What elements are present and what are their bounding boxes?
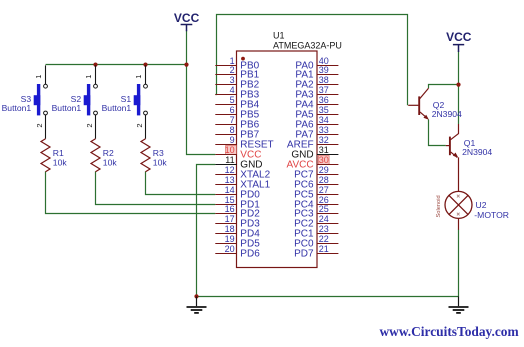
svg-text:19: 19 [225,234,235,244]
U1 pin 38 PA2 [295,75,338,91]
svg-text:2: 2 [35,123,44,127]
pushbutton S3 (Button1) [34,65,48,138]
wire: VCC right vertical down to Q1 collector [458,52,460,125]
resistor R2 10k [91,139,100,172]
svg-text:10: 10 [225,145,235,155]
wire: Q1 emitter to motor (component leads) [458,157,460,229]
svg-text:16: 16 [225,204,235,214]
svg-text:3: 3 [230,75,235,85]
svg-text:PD6: PD6 [240,249,260,260]
svg-text:38: 38 [319,75,329,85]
pushbutton S1 (Button1) [134,65,148,138]
svg-text:R3: R3 [153,148,164,158]
U1 pin 25 PC3 [294,204,338,220]
svg-text:35: 35 [319,105,329,115]
U1 pin 27 PC5 [294,185,338,201]
svg-text:33: 33 [319,125,329,135]
svg-text:2: 2 [230,65,235,75]
U1 pin 1 PB0 [215,56,259,72]
svg-text:U1: U1 [273,31,285,41]
U1 pin 32 AREF [287,135,338,151]
U1 pin 15 PD1 [215,195,260,211]
wire: R2 bottom to pin 15 PD1 [96,172,216,205]
U1 pin 11 GND [215,155,262,171]
wire: bottom ground rail [197,296,459,298]
svg-text:24: 24 [319,214,329,224]
svg-text:VCC: VCC [446,30,472,44]
motor U2 symbol [445,191,472,218]
U1 pin 7 PB6 [215,115,259,131]
svg-text:10k: 10k [153,158,168,168]
svg-text:10k: 10k [103,158,118,168]
U1 pin 5 PB4 [215,95,259,111]
U1 pin 29 PC7 [294,165,338,181]
wire: pin 11 GND left and down to ground [197,165,216,297]
svg-text:1: 1 [34,75,43,79]
svg-text:Solenoid: Solenoid [436,195,442,217]
op IC U1 ATMEGA32A-PU body [237,51,318,268]
svg-text:8: 8 [230,125,235,135]
wire: VCC left vertical down to pin 10 (VCC) [187,31,216,155]
U1 pin 10 VCC [215,145,261,161]
U1 pin 22 PC0 [294,234,338,250]
U1 pin 23 PC1 [294,224,338,240]
svg-text:Button1: Button1 [52,103,82,113]
motor pin marks [457,195,460,216]
svg-text:U2: U2 [476,200,487,210]
svg-text:13: 13 [225,175,235,185]
svg-text:14: 14 [225,185,235,195]
power symbol VCC (left) [174,11,200,31]
svg-text:-MOTOR: -MOTOR [474,210,509,220]
U1 pin 17 PD3 [215,214,260,230]
svg-text:2: 2 [85,123,94,127]
svg-text:2N3904: 2N3904 [462,147,492,157]
svg-text:Button1: Button1 [102,103,132,113]
junction: GND wire to ground rail [194,294,198,298]
U1 pin 37 PA3 [295,85,338,101]
pin 1 marker dot [241,57,245,61]
svg-text:2: 2 [135,123,144,127]
U1 pin 34 PA6 [295,115,338,131]
svg-text:28: 28 [319,175,329,185]
U1 pin 4 PB3 [215,85,259,101]
svg-text:11: 11 [225,155,234,165]
junction: VCC to Q2 collector [456,83,460,87]
resistor R3 10k [141,139,150,172]
wire: motor bottom to ground rail [458,230,460,297]
svg-text:29: 29 [319,165,329,175]
wire: R3 bottom to pin 14 PD0 [146,172,216,195]
wire: R1 bottom to pin 16 PD2 [46,172,216,214]
U1 pin 9 RESET [215,135,273,151]
U1 pin 33 PA7 [295,125,338,141]
svg-text:22: 22 [319,234,329,244]
transistor Q2 2N3904 [408,88,428,118]
wire: Q2 emitter to Q1 base [429,120,446,146]
svg-text:6: 6 [230,105,235,115]
U1 pin 8 PB7 [215,125,259,141]
U1 pin 2 PB1 [215,65,259,81]
svg-text:39: 39 [319,65,329,75]
U1 pin 19 PD5 [215,234,260,250]
junction: S2 to rail [93,63,97,67]
svg-text:4: 4 [230,85,235,95]
svg-text:20: 20 [225,244,235,254]
U1 pin 14 PD0 [215,185,260,201]
svg-text:32: 32 [319,135,329,145]
power symbol VCC (right) [446,30,472,52]
ground (left) [187,296,207,313]
U1 pin 35 PA5 [295,105,338,121]
svg-text:1: 1 [134,75,143,79]
svg-text:2N3904: 2N3904 [432,109,462,119]
U1 pin 12 XTAL2 [215,165,270,181]
U1 pin 40 PA0 [295,56,338,72]
U1 pin 13 XTAL1 [215,175,270,191]
svg-text:31: 31 [319,145,329,155]
transistor Q1 2N3904 [446,124,459,157]
svg-text:PD7: PD7 [294,249,314,260]
U1 pin 39 PA1 [295,65,338,81]
wire: pin 4 PB3 up over IC to Q2 base [215,15,407,106]
svg-text:9: 9 [230,135,235,145]
svg-text:36: 36 [319,95,329,105]
svg-text:17: 17 [225,214,235,224]
U1 pin 28 PC6 [294,175,338,191]
svg-text:21: 21 [319,244,329,254]
pushbutton S2 (Button1) [84,65,98,138]
svg-text:18: 18 [225,224,235,234]
svg-text:R2: R2 [103,148,114,158]
ground (right) [449,296,469,313]
svg-text:7: 7 [230,115,235,125]
svg-text:VCC: VCC [174,11,200,25]
U1 pin 36 PA4 [295,95,338,111]
svg-text:10k: 10k [53,158,68,168]
U1 pin 30 AVCC [287,155,339,171]
U1 pin 21 PD7 [294,244,338,260]
junction: S1 to rail [143,63,147,67]
svg-text:1: 1 [84,75,93,79]
svg-text:www.CircuitsToday.com: www.CircuitsToday.com [380,324,519,339]
wire: VCC node to Q2 collector [429,85,459,89]
wire: button top rail to VCC [46,64,187,66]
svg-text:27: 27 [319,185,329,195]
resistor R1 10k [41,139,50,172]
svg-text:34: 34 [319,115,329,125]
U1 pin 6 PB5 [215,105,259,121]
U1 pin 18 PD4 [215,224,260,240]
U1 pin 16 PD2 [215,204,260,220]
U1 pin 20 PD6 [215,244,260,260]
junction: rail to VCC line [184,63,188,67]
U1 pin 26 PC4 [294,195,338,211]
svg-text:Button1: Button1 [2,103,32,113]
U1 pin 3 PB2 [215,75,259,91]
U1 pin 31 GND [291,145,338,161]
svg-text:12: 12 [225,165,235,175]
svg-text:37: 37 [319,85,329,95]
svg-text:5: 5 [230,95,235,105]
svg-text:25: 25 [319,204,329,214]
U1 pin 24 PC2 [294,214,338,230]
svg-text:23: 23 [319,224,329,234]
svg-text:ATMEGA32A-PU: ATMEGA32A-PU [273,41,342,51]
svg-text:R1: R1 [53,148,64,158]
svg-text:30: 30 [319,155,329,165]
